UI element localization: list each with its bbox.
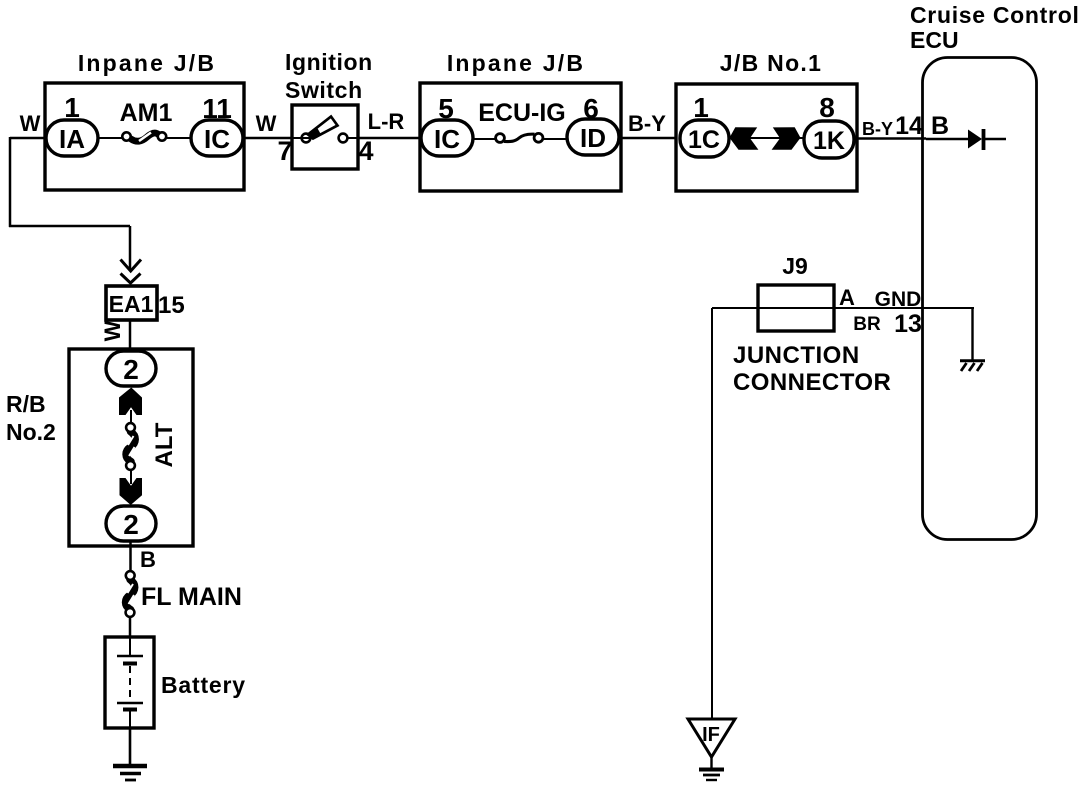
connector arrow left xyxy=(730,127,759,150)
ground battery xyxy=(113,764,147,769)
svg-text:2: 2 xyxy=(123,509,139,540)
fusible link FL MAIN xyxy=(126,580,135,610)
battery plate long top xyxy=(117,655,143,657)
wire switch to box2 xyxy=(358,137,421,140)
svg-text:7: 7 xyxy=(277,136,292,166)
wire inside ECU to diode xyxy=(926,138,968,141)
switch contact 7 xyxy=(302,134,311,143)
svg-text:2: 2 xyxy=(123,354,139,385)
svg-text:JUNCTION: JUNCTION xyxy=(733,342,860,369)
svg-text:J9: J9 xyxy=(782,253,808,279)
svg-text:4: 4 xyxy=(358,136,373,166)
svg-text:ID: ID xyxy=(580,123,606,153)
svg-text:1C: 1C xyxy=(688,126,720,154)
connector arrow right xyxy=(772,127,801,150)
svg-text:Cruise Control: Cruise Control xyxy=(910,2,1080,28)
fuse ALT xyxy=(126,432,135,462)
battery internal wire top xyxy=(129,637,131,655)
chassis ground inside ECU xyxy=(960,359,985,362)
wire IC to fuse xyxy=(473,138,496,140)
svg-text:14: 14 xyxy=(895,112,923,140)
wire R/B box to FL MAIN xyxy=(129,541,132,572)
svg-text:GND: GND xyxy=(875,288,922,311)
svg-text:1K: 1K xyxy=(813,127,845,155)
svg-text:Ignition: Ignition xyxy=(285,49,373,75)
wire contact to box edge xyxy=(292,137,310,139)
wire between connector arrows xyxy=(729,137,805,139)
svg-text:IC: IC xyxy=(434,124,460,154)
svg-text:FL MAIN: FL MAIN xyxy=(141,583,242,611)
battery internal wire bottom xyxy=(129,711,131,728)
svg-text:CONNECTOR: CONNECTOR xyxy=(733,369,891,396)
svg-text:IC: IC xyxy=(204,124,230,154)
EA1 down chevrons xyxy=(121,260,142,272)
svg-text:W: W xyxy=(20,111,41,136)
svg-text:J/B No.1: J/B No.1 xyxy=(720,50,822,76)
wire vertical to EA1 xyxy=(129,226,132,270)
wire left of J9 xyxy=(712,307,758,309)
switch contact 4 xyxy=(339,134,348,143)
wire left vertical drop xyxy=(9,137,12,227)
battery plate short top xyxy=(123,662,137,666)
svg-text:8: 8 xyxy=(819,92,835,123)
svg-text:Switch: Switch xyxy=(285,77,363,103)
Inpane J/B box 2 xyxy=(420,83,621,191)
Inpane J/B box 1 xyxy=(45,83,244,190)
svg-text:W: W xyxy=(256,111,277,136)
R/B No.2 box xyxy=(69,349,193,546)
svg-text:L-R: L-R xyxy=(368,109,405,134)
fuse ALT arrow down xyxy=(120,478,143,505)
wire box2 to J/B No.1 xyxy=(621,137,677,140)
svg-text:No.2: No.2 xyxy=(6,419,56,445)
svg-text:ALT: ALT xyxy=(151,422,178,467)
wire down inside ECU to chassis ground xyxy=(971,308,973,360)
wire arrow to fuse xyxy=(130,410,132,424)
svg-text:BR: BR xyxy=(853,314,881,335)
svg-text:Inpane J/B: Inpane J/B xyxy=(78,50,216,76)
battery xyxy=(105,637,154,728)
battery plate long bottom xyxy=(117,702,143,704)
svg-text:IA: IA xyxy=(59,124,85,154)
battery plate short bottom xyxy=(123,708,137,712)
svg-text:EA1: EA1 xyxy=(109,291,154,317)
wire fuse to arrow xyxy=(130,470,132,484)
wire W left stub xyxy=(10,137,47,140)
wire battery to ground xyxy=(129,728,132,766)
J/B No.1 box xyxy=(676,84,857,191)
wire through and right of J9 to ECU xyxy=(758,307,974,309)
wire IA to fuse AM1 xyxy=(98,137,123,139)
svg-text:Inpane J/B: Inpane J/B xyxy=(447,50,585,76)
wire box1 to switch xyxy=(244,137,293,140)
svg-text:13: 13 xyxy=(894,310,922,338)
svg-text:B-Y: B-Y xyxy=(862,119,893,139)
svg-text:B: B xyxy=(931,112,949,140)
wire IF to ground xyxy=(710,757,712,769)
connector IF triangle xyxy=(688,719,735,757)
wire horizontal at y226 xyxy=(9,225,130,228)
connector EA1 pin 15 xyxy=(106,286,157,320)
svg-text:A: A xyxy=(839,285,855,310)
J9 box xyxy=(758,285,834,331)
connector oval 2 bottom xyxy=(106,506,156,541)
svg-text:ECU-IG: ECU-IG xyxy=(478,99,566,127)
wire EA1 to R/B box xyxy=(129,319,132,352)
svg-text:B: B xyxy=(140,547,156,572)
wire FL MAIN to battery xyxy=(129,617,132,638)
switch lever xyxy=(308,117,338,139)
svg-text:ECU: ECU xyxy=(910,27,959,53)
svg-text:W: W xyxy=(100,320,125,341)
svg-text:IF: IF xyxy=(702,724,720,746)
diode D1 xyxy=(968,130,982,149)
battery dashed center xyxy=(129,666,131,701)
svg-text:AM1: AM1 xyxy=(120,99,173,127)
fuse ALT arrow up xyxy=(119,388,142,416)
svg-text:Battery: Battery xyxy=(161,672,246,698)
wire fuse to IC xyxy=(166,137,192,139)
wire fuse to ID xyxy=(543,138,568,140)
ground IF xyxy=(699,768,724,772)
svg-text:B-Y: B-Y xyxy=(628,111,666,136)
svg-text:R/B: R/B xyxy=(6,391,46,417)
svg-text:15: 15 xyxy=(158,292,185,319)
wire J/B No.1 to ECU pin 14 xyxy=(857,137,926,140)
wire J9 down to IF xyxy=(711,308,713,720)
connector oval 2 top xyxy=(106,351,156,386)
